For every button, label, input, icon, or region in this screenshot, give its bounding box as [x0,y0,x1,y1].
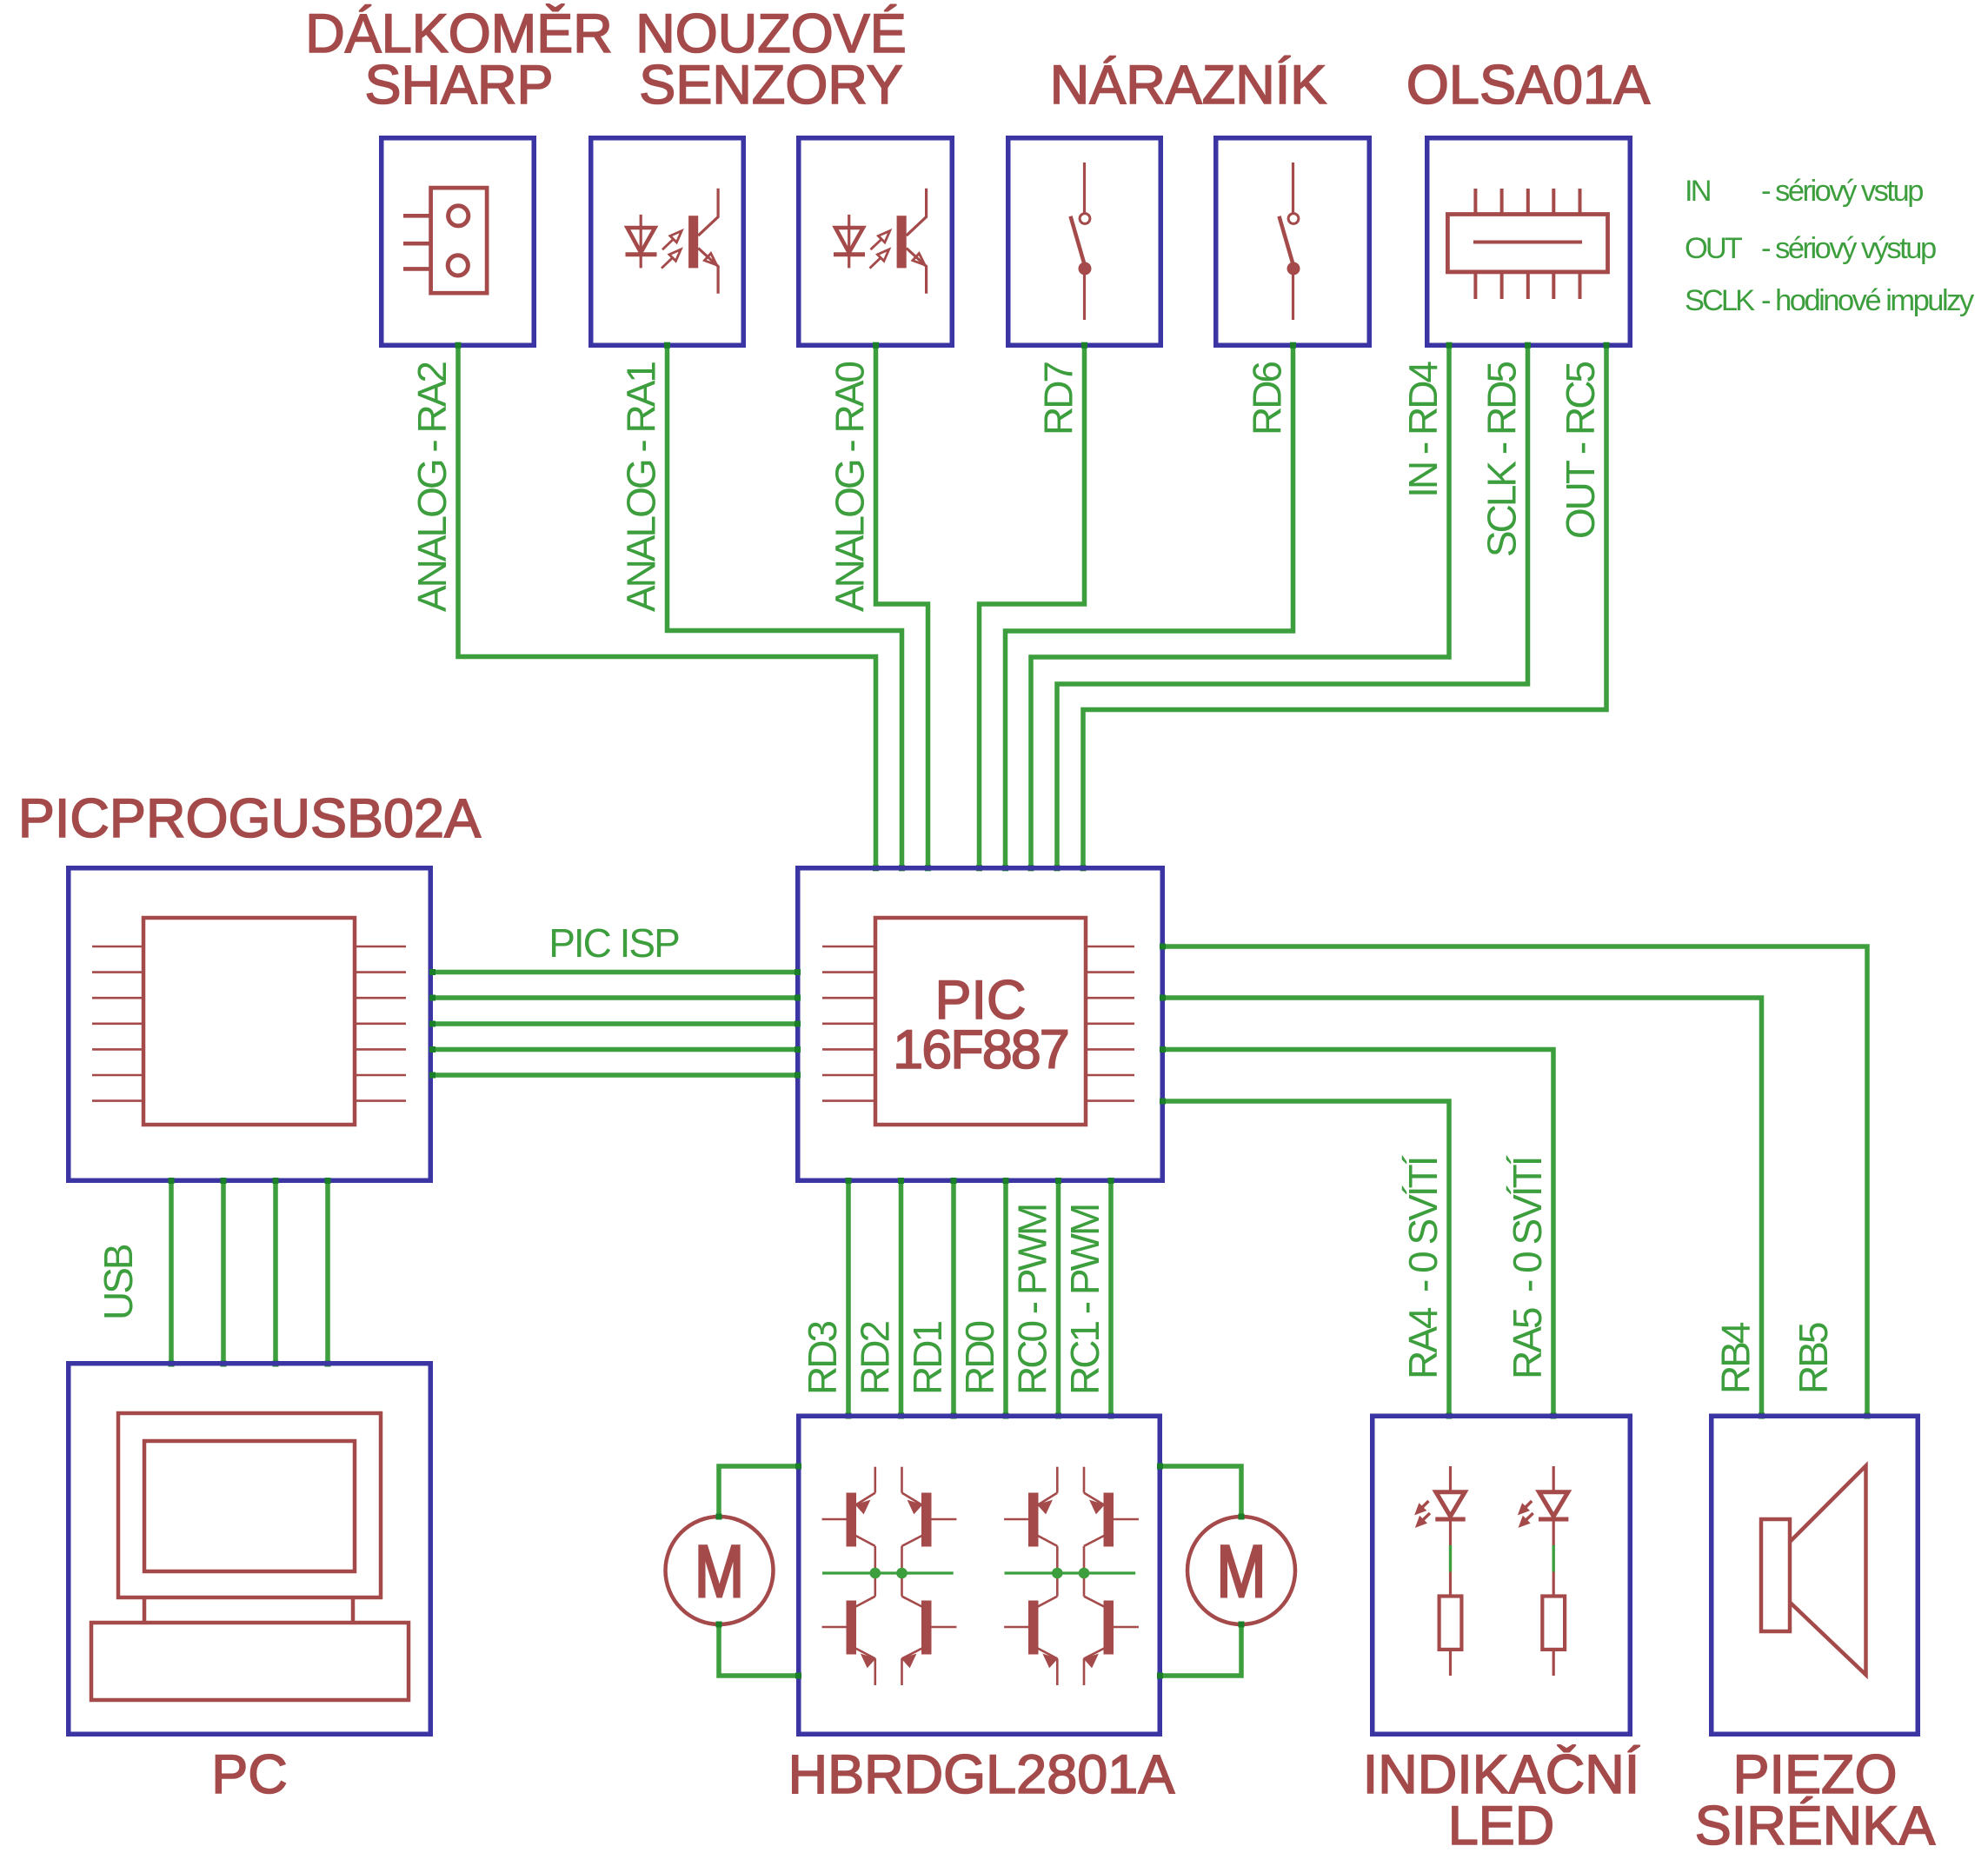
svg-text:- sériový vstup: - sériový vstup [1761,175,1923,208]
switch symbol S1 [1071,163,1091,320]
svg-text:- sériový výstup: - sériový výstup [1761,232,1936,265]
svg-text:PIC ISP: PIC ISP [549,920,679,966]
svg-text:- hodinové impulzy: - hodinové impulzy [1761,284,1975,317]
IC symbol programmer [92,918,406,1125]
junction dots bottom wires [846,1178,1114,1419]
svg-text:ANALOG - RA2: ANALOG - RA2 [409,362,455,613]
svg-text:RC0 - PWM: RC0 - PWM [1010,1205,1055,1395]
H-bridge transistors left [822,1467,957,1685]
IC symbol OLSA01A [1447,189,1607,299]
svg-text:IN: IN [1685,175,1711,208]
svg-text:RD6: RD6 [1245,362,1290,435]
svg-text:SCLK - RD5: SCLK - RD5 [1479,362,1525,557]
wire PIC ISP 5 [431,1072,796,1078]
block NOUZOVE SENZORY box 1 [591,138,744,346]
H-bridge transistors right [1004,1467,1139,1685]
wire motor right bottom [1160,1626,1241,1676]
wire RD1 [951,1181,956,1416]
svg-text:NÁRAZNÍK: NÁRAZNÍK [1050,55,1327,116]
wire RD2 [899,1181,904,1416]
junction dots motor wires [716,1464,1245,1679]
svg-text:M: M [695,1531,744,1612]
wire motor left bottom [719,1626,798,1676]
svg-text:RD1: RD1 [905,1322,950,1395]
wire RC1 - PWM [1108,1181,1114,1416]
junction dots right wires [1160,944,1871,1419]
wire PIC ISP 4 [431,1047,796,1053]
junction dots USB [169,1178,331,1367]
svg-text:OLSA01A: OLSA01A [1406,55,1650,116]
svg-text:PICPROGUSB02A: PICPROGUSB02A [18,788,481,849]
block PICPROGUSB02A box [69,868,431,1181]
svg-text:ANALOG - RA0: ANALOG - RA0 [828,362,873,613]
block INDIKACNI LED box [1373,1416,1631,1734]
optocoupler symbol OK2 [834,189,927,294]
svg-text:HBRDGL2801A: HBRDGL2801A [788,1744,1175,1805]
svg-text:SENZORY: SENZORY [639,55,902,116]
speaker symbol piezo [1761,1466,1866,1676]
computer symbol PC [91,1413,409,1700]
wire USB 2 [221,1181,226,1363]
wire ANALOG - RA0 [876,345,928,868]
svg-text:RD3: RD3 [800,1322,845,1395]
svg-text:RD7: RD7 [1036,362,1081,435]
svg-text:ANALOG - RA1: ANALOG - RA1 [619,362,664,613]
block NARAZNIK box 1 [1008,138,1161,346]
junction dots PIC ISP [429,969,801,1079]
motor M1 [666,1517,774,1624]
wire ANALOG - RA1 [668,345,902,868]
svg-text:RA4 - 0 SVÍTÍ: RA4 - 0 SVÍTÍ [1400,1155,1446,1379]
wire motor right top [1160,1466,1241,1515]
svg-text:M: M [1217,1531,1267,1612]
svg-text:USB: USB [96,1245,141,1320]
IC symbol PIC16F887 [822,918,1134,1125]
block PIEZO SIRENKA box [1712,1416,1918,1734]
wire USB 4 [325,1181,330,1363]
svg-text:RB4: RB4 [1713,1322,1759,1394]
block NOUZOVE SENZORY box 2 [799,138,953,346]
wire RD3 [846,1181,851,1416]
junction dots PIC top wires [873,865,1087,871]
block NARAZNIK box 2 [1216,138,1370,346]
block HBRDGL2801A box [799,1416,1160,1734]
svg-text:SIRÉNKA: SIRÉNKA [1695,1796,1936,1856]
svg-text:PC: PC [211,1744,288,1805]
wire motor left top [719,1466,798,1515]
svg-text:RB5: RB5 [1791,1323,1836,1394]
connector symbol SHARP sensor [403,188,487,293]
wire RD6 [1006,345,1293,868]
wire RA4 [1163,1101,1449,1416]
LED1 with resistor [1415,1466,1466,1676]
wire OUT - RC5 [1083,345,1606,868]
wire PIC ISP 2 [431,995,796,1000]
wire SCLK - RD5 [1057,345,1528,868]
svg-text:IN - RD4: IN - RD4 [1400,362,1446,498]
junction dots top boxes [455,342,1610,349]
switch symbol S2 [1280,163,1300,320]
wire USB 1 [169,1181,174,1363]
svg-text:OUT - RC5: OUT - RC5 [1558,362,1603,540]
block PIC 16F887 box [798,868,1163,1181]
wire USB 3 [273,1181,278,1363]
optocoupler symbol OK1 [626,189,719,294]
block PC box [69,1364,431,1735]
svg-text:RD2: RD2 [853,1322,898,1395]
wire RB4 [1163,998,1762,1416]
wire PIC ISP 1 [431,970,796,975]
wire RA5 [1163,1050,1553,1417]
svg-text:SHARP: SHARP [364,55,553,116]
svg-text:RC1 - PWM: RC1 - PWM [1062,1205,1107,1395]
svg-text:RD0: RD0 [957,1322,1002,1395]
wire IN - RD4 [1031,345,1449,868]
wire ANALOG - RA2 [458,345,876,868]
LED2 with resistor [1519,1466,1569,1676]
motor M2 [1187,1517,1295,1624]
svg-text:SCLK: SCLK [1685,284,1755,317]
svg-text:16F887: 16F887 [893,1019,1068,1080]
wire RC0 - PWM [1056,1181,1061,1416]
svg-text:OUT: OUT [1685,232,1743,265]
svg-text:RA5 - 0 SVÍTÍ: RA5 - 0 SVÍTÍ [1505,1155,1550,1379]
wire RD0 [1003,1181,1008,1416]
wire RB5 [1163,946,1867,1416]
svg-text:LED: LED [1448,1796,1555,1856]
block OLSA01A box [1427,138,1631,346]
wire RD7 [980,345,1085,868]
wire PIC ISP 3 [431,1021,796,1026]
block DALKOMER SHARP box [382,138,535,346]
